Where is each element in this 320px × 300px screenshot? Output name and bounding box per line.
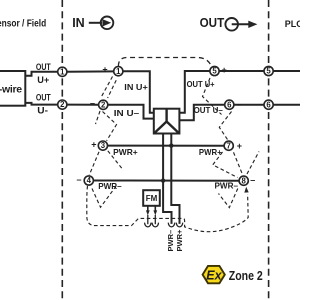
svg-text:2-wire: 2-wire — [0, 83, 22, 95]
svg-text:U-: U- — [37, 105, 48, 116]
dashed isolation V below terminal 8 — [219, 189, 238, 208]
FM plug arrows — [147, 206, 149, 211]
dashed isolation stub below 2 — [96, 111, 101, 124]
svg-text:OUT: OUT — [36, 62, 51, 73]
svg-text:OUT U–: OUT U– — [194, 105, 224, 115]
dashed isolation zigzag 6-7 — [219, 112, 231, 141]
svg-text:–: – — [76, 174, 81, 184]
svg-text:PWR–: PWR– — [166, 230, 175, 252]
wire OUT U+ isolator to terminal 5 — [179, 71, 210, 113]
device terminal circle 2 — [99, 100, 108, 109]
svg-text:+: + — [222, 65, 227, 75]
svg-text:6: 6 — [227, 100, 232, 109]
svg-text:PWR–: PWR– — [98, 181, 122, 191]
svg-text:PWR–: PWR– — [215, 181, 239, 191]
dashed isolation diagonal 3 to FM area — [108, 151, 122, 169]
FM box — [143, 190, 160, 206]
PLC terminal circle 6 — [264, 100, 273, 109]
wire IN U+ terminal 1 to isolator — [123, 71, 154, 113]
svg-text:OUT: OUT — [200, 16, 225, 30]
device terminal circle 6 — [225, 100, 234, 109]
device terminal circle 8 — [239, 176, 248, 185]
device terminal circle 1 — [114, 67, 123, 76]
svg-text:5: 5 — [212, 67, 217, 76]
device terminal circle 3 — [98, 141, 107, 150]
device terminal circle 5 — [210, 66, 219, 75]
dashed isolation zigzag 2-3 — [103, 112, 117, 141]
wire OUT U- isolator to terminal 6 — [179, 105, 224, 121]
svg-text:4: 4 — [87, 176, 92, 185]
svg-text:6: 6 — [266, 100, 271, 109]
svg-text:–: – — [90, 98, 95, 108]
svg-text:1: 1 — [60, 67, 65, 76]
svg-text:Zone 2: Zone 2 — [229, 268, 263, 283]
svg-text:IN U+: IN U+ — [124, 82, 148, 92]
device terminal circle 4 — [84, 176, 93, 185]
dashed isolation V below terminal 4 — [92, 185, 117, 208]
wire field terminal 2 to device terminal 2 — [67, 104, 99, 106]
wire sensor box to field terminal 1 — [25, 72, 57, 76]
svg-text:IN: IN — [72, 16, 85, 30]
sensor box 2-wire — [0, 71, 25, 106]
FM plug pins — [147, 215, 149, 224]
isolation boundary left (Sensor/Field separator) — [61, 0, 63, 300]
device terminal circle 7 — [224, 141, 233, 150]
Ex hexagon Zone 2 marking — [203, 266, 225, 283]
junction dot on PWR- — [161, 178, 165, 182]
junction dot on PWR+ — [169, 143, 173, 147]
dashed isolation zigzag 1-2 — [101, 77, 113, 98]
dashed isolation zigzag 7-8 — [213, 152, 238, 178]
svg-text:1: 1 — [116, 67, 121, 76]
svg-text:–: – — [237, 99, 242, 109]
dashed isolation zigzag 3-4 — [89, 152, 99, 175]
wire PWR+ terminal 3 to terminal 7 — [108, 145, 225, 147]
FM socket contacts — [145, 223, 151, 227]
PLC terminal circle 5 — [264, 66, 273, 75]
dashed isolation arc terminal1 to terminal5 — [118, 58, 210, 67]
wire sensor box to field terminal 2 — [25, 103, 57, 105]
svg-text:Ex: Ex — [206, 269, 222, 283]
wire IN U- terminal 2 to isolator — [108, 105, 154, 119]
svg-text:8: 8 — [242, 176, 247, 185]
wire PLC terminal 5 to edge — [273, 70, 300, 72]
svg-text:7: 7 — [227, 141, 231, 150]
isolator U1 — [154, 109, 180, 134]
dashed isolation line 7-8 — [234, 152, 243, 174]
svg-text:PWR+: PWR+ — [175, 229, 184, 251]
arrowhead pointing to terminal 8 — [244, 187, 248, 193]
field terminal circle 2 — [58, 100, 67, 109]
wire isolator left leg to PWR socket — [163, 134, 171, 224]
dashed isolation zigzag 5-6 — [203, 78, 222, 115]
wire device terminal 6 to PLC terminal 6 — [234, 104, 264, 106]
field terminal circle 1 — [58, 67, 67, 76]
svg-text:PWR+: PWR+ — [199, 147, 222, 157]
wire PLC terminal 6 to edge — [273, 104, 300, 106]
svg-text:+: + — [102, 65, 107, 75]
svg-text:5: 5 — [266, 67, 271, 76]
svg-text:–: – — [250, 175, 255, 185]
OUT flow symbol — [225, 18, 238, 31]
svg-text:3: 3 — [101, 141, 106, 150]
svg-text:OUT: OUT — [36, 92, 51, 103]
svg-text:+: + — [91, 140, 96, 150]
svg-text:Sensor / Field: Sensor / Field — [0, 19, 46, 30]
IN flow symbol — [89, 22, 102, 24]
svg-text:2: 2 — [60, 100, 65, 109]
dashed enclosure outline bottom left — [87, 186, 248, 232]
svg-text:2: 2 — [101, 100, 106, 109]
PWR socket contacts — [168, 223, 174, 227]
svg-text:IN U–: IN U– — [114, 108, 140, 118]
svg-text:PWR+: PWR+ — [113, 147, 138, 157]
wire isolator right leg to PWR socket — [171, 134, 179, 224]
svg-text:PLC / DCS: PLC / DCS — [285, 19, 300, 29]
svg-text:+: + — [237, 141, 242, 151]
svg-text:U+: U+ — [37, 75, 49, 86]
dashed isolation diagonal right of 7 — [247, 152, 259, 175]
wire PWR- terminal 4 to terminal 8 — [93, 180, 239, 182]
wire device terminal 5 to PLC terminal 5 — [219, 70, 264, 72]
isolation boundary right (PLC separator) — [268, 0, 270, 300]
wire field terminal 1 to device terminal 1 — [67, 70, 114, 72]
dashed isolation cross 1-2 — [108, 80, 117, 98]
svg-text:FM: FM — [146, 194, 158, 203]
svg-text:OUT U+: OUT U+ — [187, 79, 215, 89]
